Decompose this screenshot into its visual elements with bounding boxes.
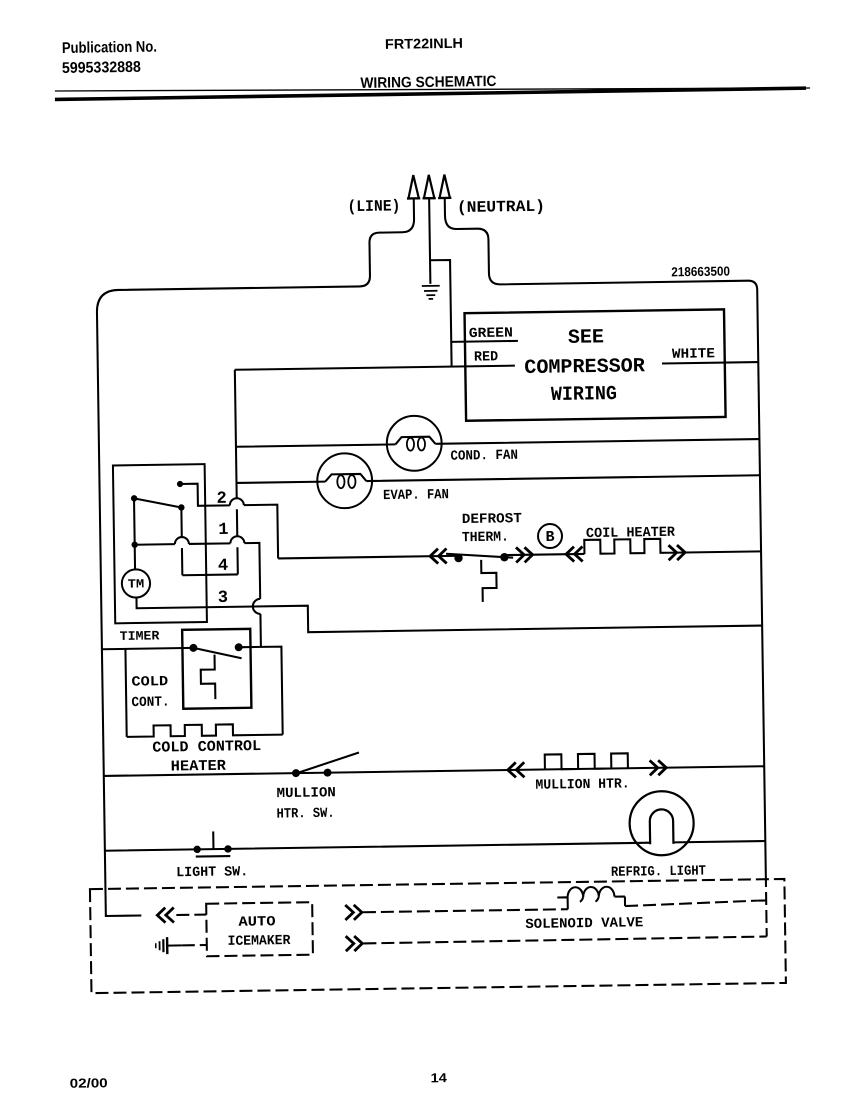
svg-text:SOLENOID VALVE: SOLENOID VALVE	[525, 915, 643, 933]
svg-text:WIRING: WIRING	[551, 383, 617, 407]
svg-text:EVAP. FAN: EVAP. FAN	[383, 487, 449, 504]
svg-text:MULLION HTR.: MULLION HTR.	[535, 776, 629, 793]
svg-text:COLD CONTROL: COLD CONTROL	[152, 738, 261, 757]
svg-text:1: 1	[218, 521, 228, 540]
svg-text:B: B	[545, 529, 554, 546]
svg-text:CONT.: CONT.	[131, 695, 169, 712]
svg-text:(LINE): (LINE)	[347, 197, 400, 216]
svg-text:5995332888: 5995332888	[62, 59, 142, 77]
svg-text:GREEN: GREEN	[469, 325, 513, 342]
svg-text:LIGHT SW.: LIGHT SW.	[176, 864, 248, 881]
svg-text:RED: RED	[474, 349, 498, 365]
svg-text:DEFROST: DEFROST	[462, 511, 522, 528]
svg-text:ICEMAKER: ICEMAKER	[227, 933, 291, 950]
svg-text:SEE: SEE	[568, 326, 604, 350]
svg-text:TM: TM	[128, 577, 145, 591]
svg-text:02/00: 02/00	[70, 1075, 108, 1091]
svg-text:FRT22INLH: FRT22INLH	[385, 35, 463, 52]
svg-text:4: 4	[218, 557, 228, 576]
svg-text:MULLION: MULLION	[276, 785, 336, 802]
svg-text:REFRIG. LIGHT: REFRIG. LIGHT	[611, 863, 706, 880]
svg-text:WHITE: WHITE	[672, 346, 715, 363]
svg-text:14: 14	[430, 1070, 447, 1085]
svg-text:COMPRESSOR: COMPRESSOR	[524, 355, 645, 380]
svg-text:3: 3	[218, 589, 228, 608]
svg-text:THERM.: THERM.	[462, 530, 509, 547]
svg-text:HEATER: HEATER	[171, 758, 226, 776]
svg-text:218663500: 218663500	[671, 263, 730, 279]
svg-text:HTR. SW.: HTR. SW.	[276, 806, 334, 823]
svg-text:COND. FAN: COND. FAN	[450, 448, 518, 465]
svg-text:COLD: COLD	[131, 674, 168, 691]
svg-text:TIMER: TIMER	[120, 628, 160, 644]
svg-text:(NEUTRAL): (NEUTRAL)	[457, 198, 545, 217]
svg-text:AUTO: AUTO	[238, 914, 275, 931]
svg-text:Publication No.: Publication No.	[62, 39, 157, 57]
